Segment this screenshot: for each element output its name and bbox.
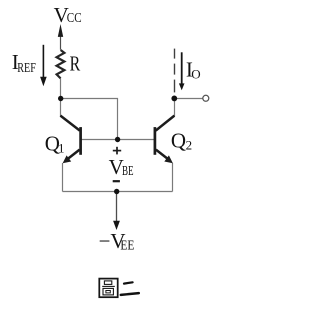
svg-text:EE: EE	[120, 238, 134, 253]
svg-text:2: 2	[186, 138, 193, 153]
svg-text:O: O	[191, 66, 200, 81]
svg-text:REF: REF	[17, 61, 36, 76]
svg-text:CC: CC	[67, 11, 82, 26]
svg-text:R: R	[70, 51, 81, 75]
svg-text:BE: BE	[122, 164, 134, 179]
svg-text:1: 1	[58, 140, 65, 155]
svg-text:Q: Q	[171, 129, 186, 153]
